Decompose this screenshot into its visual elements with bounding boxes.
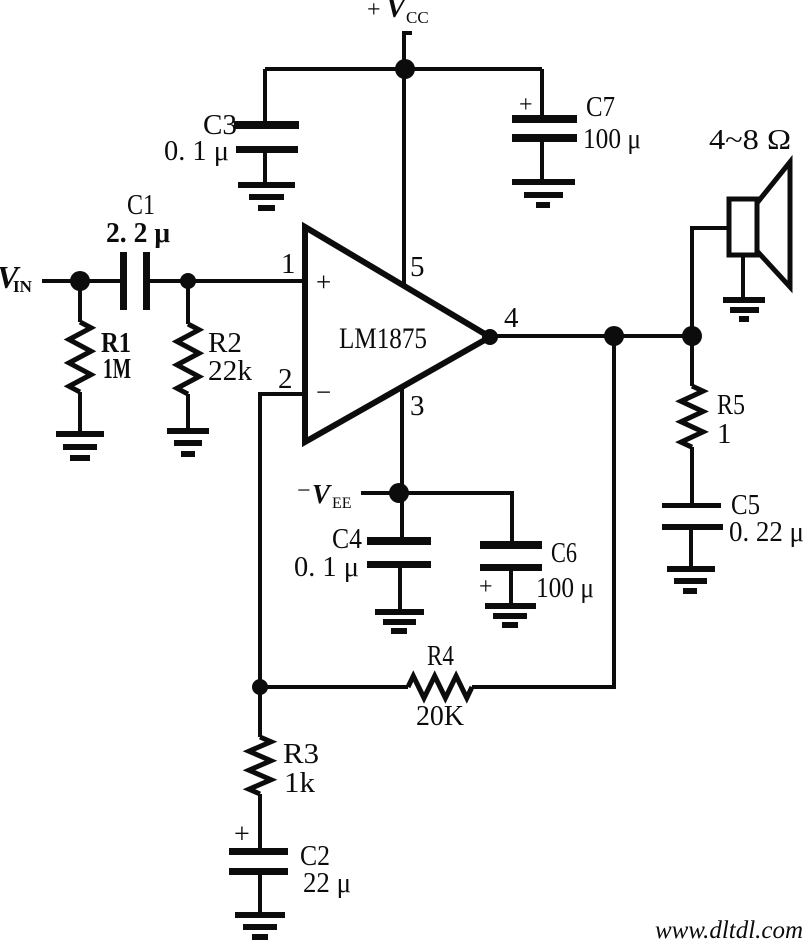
- svg-text:2. 2 μ: 2. 2 μ: [106, 217, 171, 249]
- svg-text:1: 1: [281, 248, 296, 280]
- svg-text:+: +: [519, 92, 533, 118]
- svg-text:22k: 22k: [208, 355, 253, 387]
- svg-text:R4: R4: [427, 640, 454, 672]
- svg-text:V: V: [312, 479, 332, 509]
- svg-text:R5: R5: [717, 389, 745, 421]
- svg-text:20K: 20K: [416, 700, 464, 732]
- svg-text:100 μ: 100 μ: [583, 123, 641, 155]
- svg-text:3: 3: [410, 390, 425, 422]
- svg-text:4~8 Ω: 4~8 Ω: [709, 124, 791, 156]
- svg-text:+: +: [316, 267, 331, 297]
- svg-text:4: 4: [504, 302, 519, 334]
- svg-text:−: −: [297, 478, 311, 504]
- svg-text:0. 22 μ: 0. 22 μ: [729, 516, 804, 548]
- svg-text:CC: CC: [406, 8, 429, 27]
- svg-text:+: +: [234, 819, 250, 850]
- svg-text:www.dltdl.com: www.dltdl.com: [655, 917, 803, 942]
- svg-text:22 μ: 22 μ: [303, 867, 351, 899]
- svg-text:+: +: [367, 0, 381, 23]
- svg-text:EE: EE: [332, 495, 352, 512]
- svg-text:1: 1: [717, 418, 732, 450]
- svg-text:1M: 1M: [103, 353, 131, 385]
- svg-text:+: +: [479, 574, 493, 600]
- svg-text:100 μ: 100 μ: [536, 572, 594, 604]
- svg-text:2: 2: [278, 363, 293, 395]
- svg-text:1k: 1k: [284, 767, 316, 799]
- svg-text:0. 1 μ: 0. 1 μ: [294, 551, 359, 583]
- svg-text:V: V: [386, 0, 408, 24]
- svg-text:5: 5: [410, 251, 425, 283]
- svg-text:LM1875: LM1875: [339, 322, 427, 355]
- svg-text:C7: C7: [586, 91, 615, 123]
- svg-text:IN: IN: [13, 277, 33, 296]
- svg-text:R3: R3: [283, 738, 319, 770]
- svg-text:0. 1 μ: 0. 1 μ: [164, 135, 229, 167]
- svg-text:−: −: [316, 377, 331, 407]
- svg-text:C6: C6: [551, 537, 577, 569]
